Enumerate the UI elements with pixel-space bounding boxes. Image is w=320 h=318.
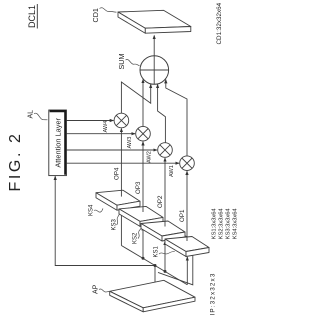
leader KS2 [138, 228, 141, 238]
wire feed into KS1 [186, 257, 188, 285]
op-amp box Attention Layer AL [49, 110, 67, 176]
svg-text:AW1: AW1 [169, 165, 175, 177]
svg-text:AW4: AW4 [103, 121, 109, 133]
leader AP [99, 289, 109, 292]
leader AL [34, 113, 48, 120]
svg-text:KS1:3x3x64: KS1:3x3x64 [212, 208, 218, 240]
wire AW4 to SUM [121, 82, 150, 113]
wire feed into KS4 [120, 210, 122, 245]
svg-text:OP3: OP3 [135, 181, 142, 194]
wire feed into KS2 [164, 241, 166, 271]
wire OP1 output of KS1 to AW1 [186, 171, 188, 241]
wire OP3 output of KS3 to AW3 [142, 142, 144, 212]
wire AW2 to SUM [158, 85, 166, 143]
multiplier AW4 [114, 113, 129, 128]
svg-text:OP4: OP4 [114, 167, 121, 180]
svg-text:KS4: KS4 [89, 204, 95, 216]
leader SUM [126, 59, 140, 65]
wire AL weight to AW3 [66, 133, 135, 135]
svg-text:DCL1: DCL1 [27, 5, 37, 28]
wire AL weight to AW2 [66, 149, 157, 151]
wire AW3 to SUM [142, 80, 144, 127]
leader KS1 [159, 251, 175, 254]
node junction KS3 branch [142, 257, 145, 260]
wire OP2 output of KS2 to AW2 [164, 158, 166, 227]
underline of DCL1 [36, 4, 38, 29]
svg-text:AW3: AW3 [127, 137, 133, 149]
svg-text:AL: AL [28, 110, 35, 119]
adder SUM [140, 56, 169, 85]
wire SUM to CD1 [153, 36, 155, 56]
wire AL weight to AW1 [66, 162, 179, 164]
wire feed into KS3 [142, 227, 144, 259]
svg-text:FIG. 2: FIG. 2 [7, 131, 24, 191]
wire OP4 output of KS4 to AW4 [120, 129, 122, 197]
wire AW1 to SUM [166, 80, 187, 156]
leader KS4 [94, 209, 103, 213]
multiplier AW1 [180, 156, 195, 171]
svg-text:AP: AP [93, 284, 100, 294]
node junction KS2 branch [164, 270, 167, 273]
svg-text:OP2: OP2 [157, 195, 164, 208]
leader CD1 [100, 8, 117, 12]
svg-text:IP:32x32x3: IP:32x32x3 [210, 272, 217, 315]
svg-text:Attention Layer: Attention Layer [53, 117, 62, 167]
multiplier AW3 [136, 126, 151, 141]
kernel slab KS2 [141, 221, 185, 241]
wire IP to bus to Attention Layer input [55, 176, 155, 288]
svg-text:CD1: CD1 [91, 8, 100, 22]
svg-text:SUM: SUM [117, 54, 126, 70]
plane DCL1 sheet [110, 205, 193, 285]
node junction on bus at IP riser [154, 264, 157, 267]
kernel slab KS1 [165, 237, 209, 257]
wire feed diagonal bus [121, 246, 187, 285]
multiplier AW2 [158, 143, 173, 158]
leader KS3 [117, 214, 120, 225]
kernel slab KS3 [119, 206, 163, 226]
svg-text:AW2: AW2 [147, 151, 153, 163]
wire AL weight to AW4 [66, 120, 113, 122]
kernel slab KS4 [96, 190, 140, 210]
input slab IP [110, 280, 195, 312]
svg-text:KS4:3x3x64: KS4:3x3x64 [233, 208, 239, 240]
output slab CD1 [118, 10, 191, 33]
svg-text:KS2:3x3x64: KS2:3x3x64 [219, 208, 225, 240]
svg-text:KS1: KS1 [154, 245, 160, 257]
svg-text:KS2: KS2 [133, 232, 139, 244]
svg-text:OP1: OP1 [179, 209, 186, 222]
svg-text:KS3:3x3x64: KS3:3x3x64 [226, 208, 232, 240]
svg-text:CD1:32x32x64: CD1:32x32x64 [216, 2, 223, 44]
